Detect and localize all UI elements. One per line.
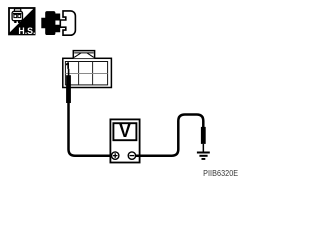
terminal grid lines [65,62,107,85]
plus terminal [112,152,119,159]
harness connector pictogram inside H.S. icon [12,9,22,23]
ground symbol [197,152,210,160]
disconnect icon: female connector half (outline) [60,11,75,35]
wire from minus terminal to ground probe [136,115,204,156]
minus terminal [128,152,135,159]
figure code PIIB6320E [203,168,238,178]
V meter letter [119,121,131,141]
voltmeter body [110,119,139,162]
voltmeter display window [113,123,136,140]
pin 1 label [66,62,69,69]
connector inner cavity [65,62,107,85]
H.S. tool icon box [9,8,35,34]
latch tab detail [74,53,94,58]
svg-text:H.S.: H.S. [18,26,35,36]
ground probe lead [203,144,205,152]
wire from probe to voltmeter plus terminal [69,102,112,156]
svg-text:PIIB6320E: PIIB6320E [203,168,238,178]
test probe tip into pin 1 [68,69,70,76]
test probe body [66,75,71,103]
svg-text:V: V [119,121,131,141]
connector housing outer shell [63,58,112,87]
H.S. label [18,26,35,36]
disconnect icon: male connector half (solid) [41,11,60,35]
ground probe body [201,127,206,144]
connector latch tab [73,51,94,59]
